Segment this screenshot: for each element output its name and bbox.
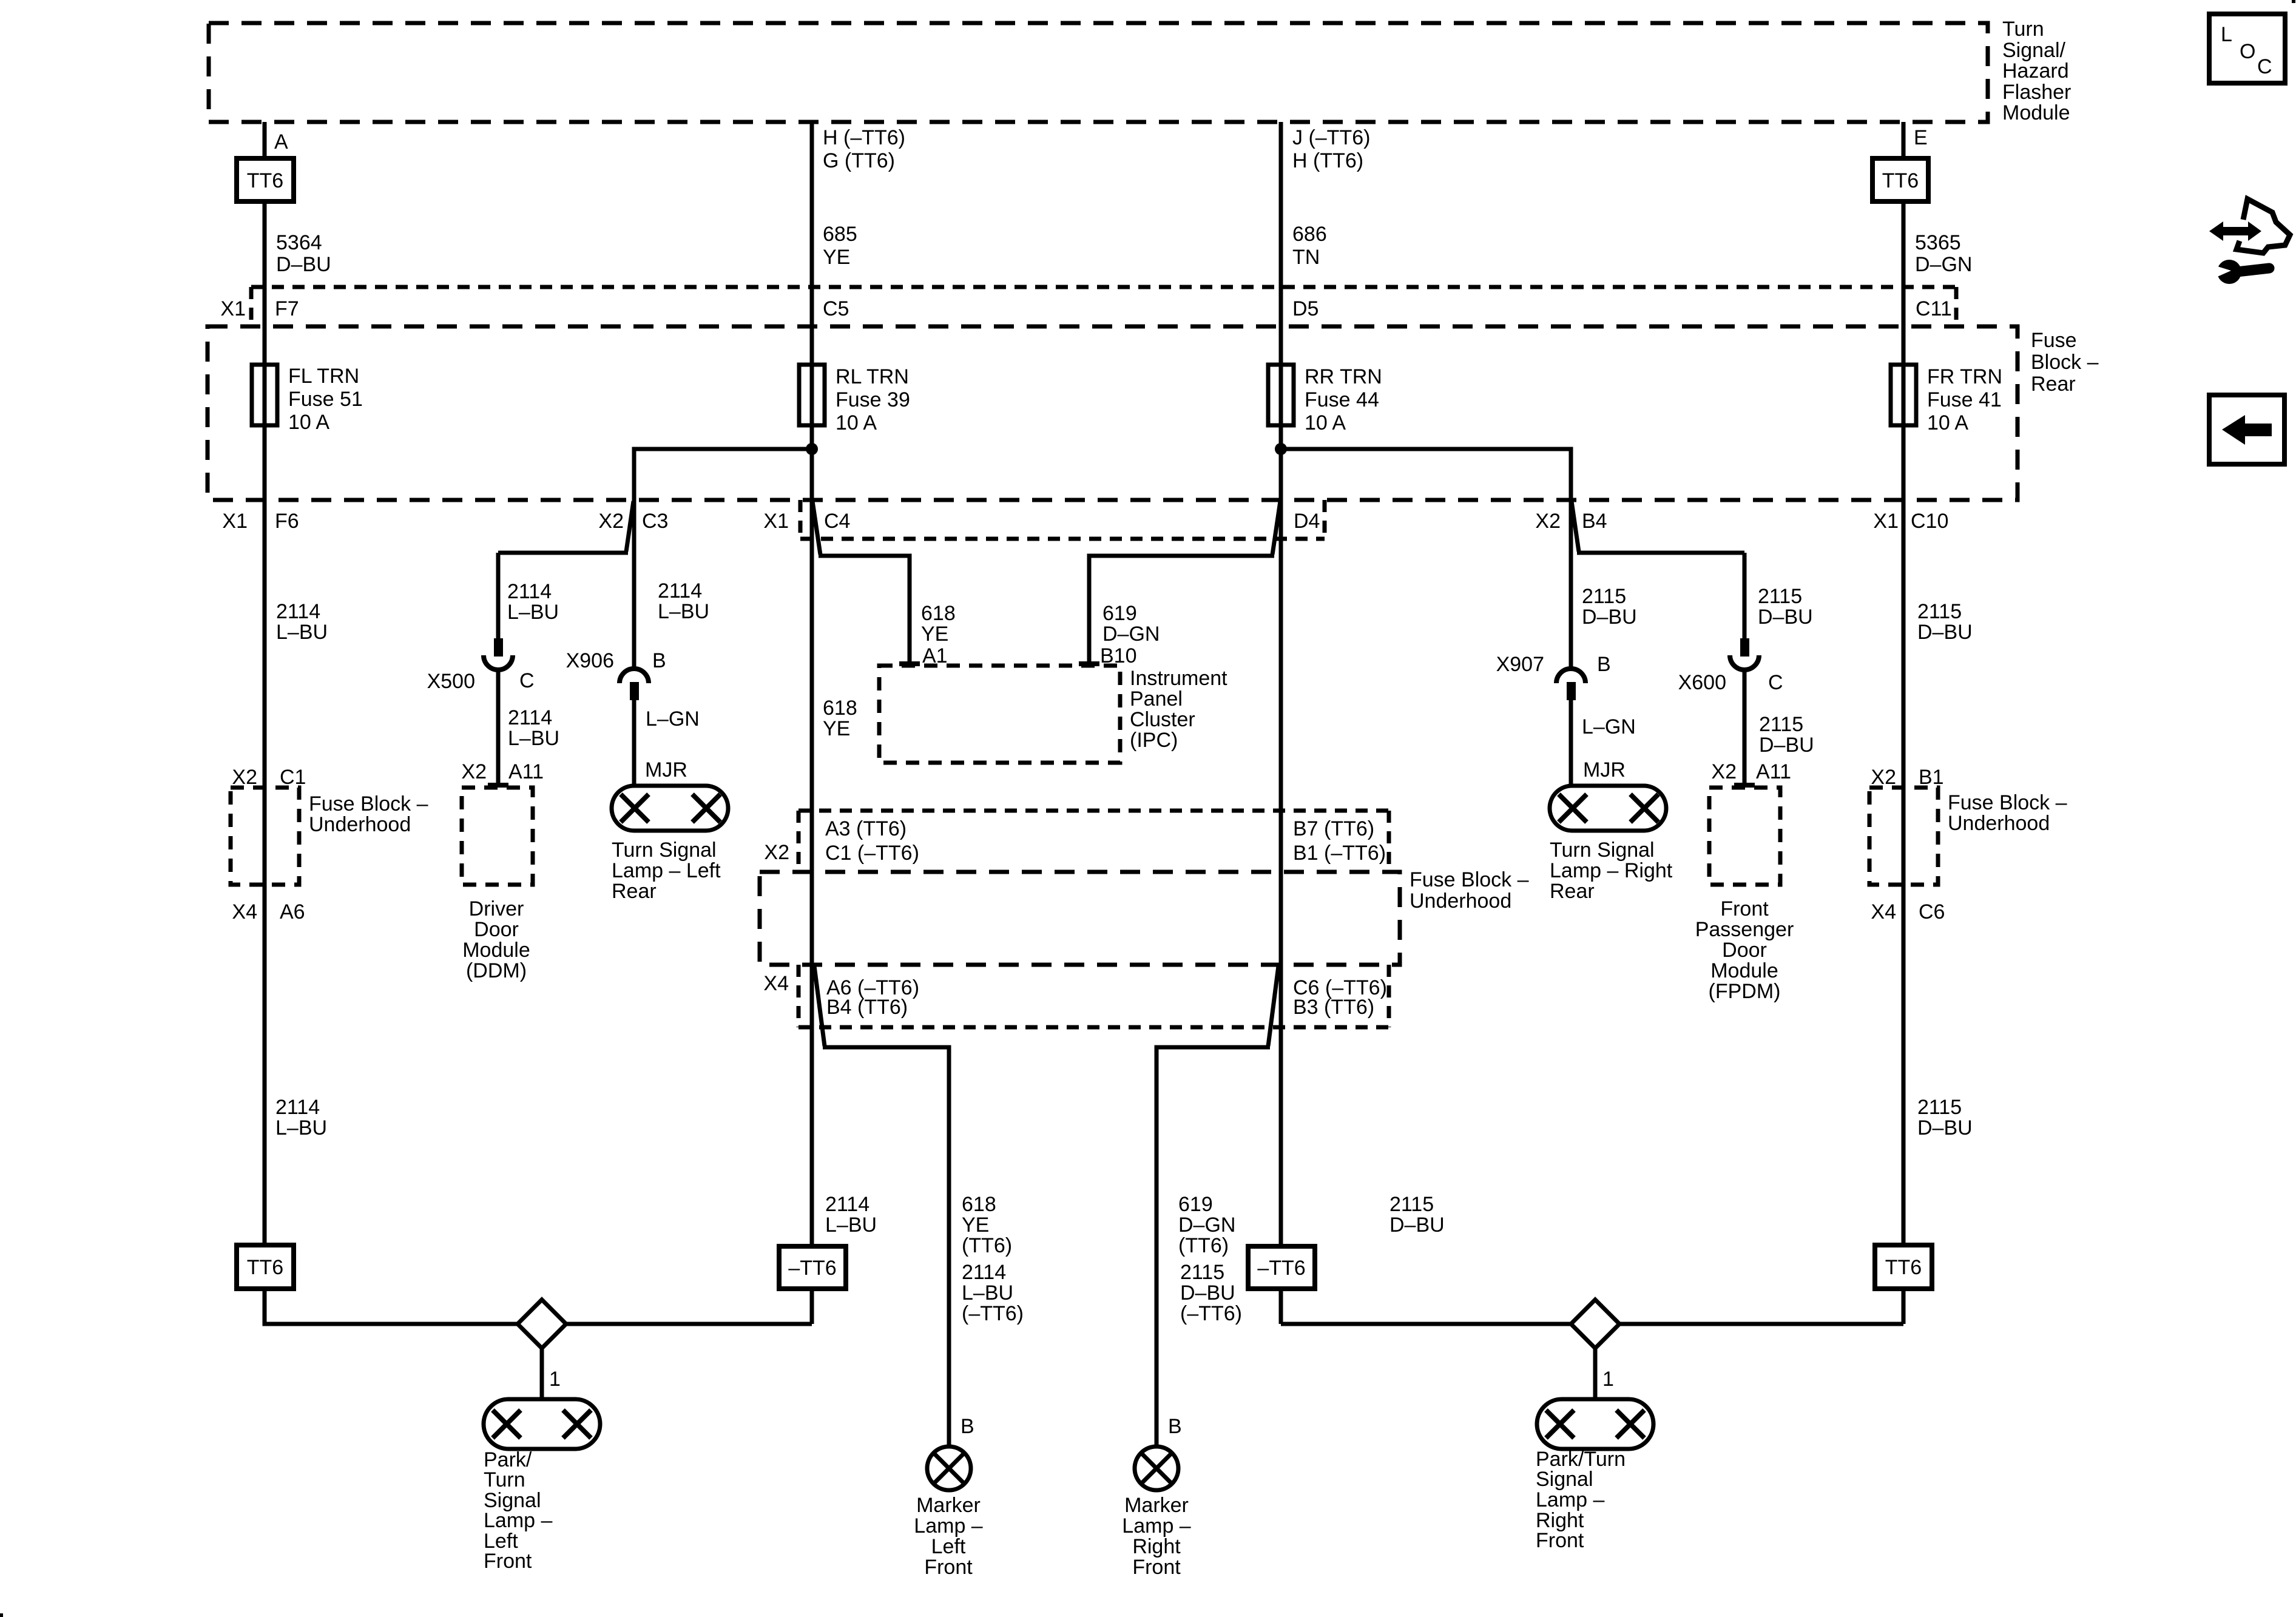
connector X600 (1730, 638, 1759, 670)
LOC icon (2209, 14, 2285, 83)
svg-text:2114: 2114 (276, 600, 320, 623)
svg-text:TT6: TT6 (1885, 1256, 1922, 1279)
Driver Door Module (DDM) dashed box (462, 788, 533, 982)
svg-text:619: 619 (1102, 602, 1137, 625)
svg-text:C: C (519, 669, 535, 692)
wire label 2114 L-BU (wire 2 lower) (825, 1193, 877, 1237)
svg-text:L–BU: L–BU (508, 727, 559, 750)
svg-text:C5: C5 (823, 297, 849, 320)
svg-text:Fuse 51: Fuse 51 (288, 388, 363, 411)
svg-text:B: B (1168, 1415, 1182, 1438)
svg-text:686: 686 (1292, 223, 1327, 246)
svg-text:D–GN: D–GN (1178, 1214, 1235, 1237)
svg-text:TT6: TT6 (247, 169, 283, 192)
TT6 tape label box (right bottom) (1875, 1245, 1932, 1289)
svg-text:Front: Front (484, 1550, 532, 1573)
svg-text:–TT6: –TT6 (788, 1257, 836, 1280)
wire: branch from wire 2 junction to C3 (634, 449, 812, 667)
wire L-GN from X907 to lamp (1569, 700, 1573, 786)
svg-text:2114: 2114 (275, 1096, 320, 1119)
wire from splice to park/turn lamp left (540, 1348, 544, 1399)
wire: branch to X600 (1572, 501, 1579, 552)
svg-text:C1 (–TT6): C1 (–TT6) (825, 842, 919, 865)
svg-text:YE: YE (921, 623, 948, 646)
svg-text:(–TT6): (–TT6) (962, 1302, 1024, 1325)
svg-text:Driver: Driver (469, 897, 524, 920)
svg-text:1: 1 (549, 1368, 561, 1391)
svg-text:F7: F7 (275, 297, 299, 320)
svg-text:Lamp –: Lamp – (484, 1509, 552, 1532)
svg-text:D–BU: D–BU (1389, 1214, 1445, 1237)
svg-text:Rear: Rear (612, 880, 657, 903)
svg-text:Fuse Block –: Fuse Block – (1410, 868, 1529, 891)
connector row X1 dotted (C4 / D4) (800, 500, 1325, 539)
svg-text:Turn: Turn (2002, 18, 2044, 41)
svg-text:B4: B4 (1582, 510, 1607, 533)
wire: 619 D-GN (TT6) branch below X4 to marker lamp right front (1268, 966, 1278, 1046)
svg-text:D4: D4 (1294, 510, 1320, 533)
connector row X4 dotted (central) (799, 965, 1389, 1027)
svg-text:X600: X600 (1678, 671, 1726, 694)
svg-text:618: 618 (823, 697, 857, 720)
svg-text:10 A: 10 A (288, 411, 329, 434)
svg-text:X4: X4 (1871, 900, 1896, 923)
svg-text:2115: 2115 (1180, 1261, 1224, 1284)
svg-text:2115: 2115 (1917, 600, 1962, 623)
svg-text:X1: X1 (1873, 510, 1899, 533)
Park/Turn Signal Lamp - Left Front (484, 1399, 600, 1573)
svg-text:C6: C6 (1919, 900, 1945, 923)
svg-text:(IPC): (IPC) (1130, 729, 1178, 752)
svg-text:L–BU: L–BU (276, 621, 328, 644)
svg-text:5364: 5364 (276, 231, 322, 254)
-TT6 tape label box (right) (1248, 1246, 1315, 1289)
label X1 / C4 (763, 510, 850, 533)
connector X906 (620, 669, 649, 700)
svg-text:Underhood: Underhood (1410, 890, 1511, 913)
svg-text:Door: Door (1722, 939, 1767, 962)
Fuse Block - Underhood (right small) dashed box (1869, 788, 2067, 885)
svg-text:YE: YE (823, 246, 850, 269)
wire label 2115 D-BU (right column upper) (1917, 600, 1973, 644)
svg-text:A6: A6 (280, 900, 305, 923)
svg-text:Module: Module (2002, 101, 2070, 124)
svg-text:X2: X2 (232, 766, 257, 789)
svg-text:Panel: Panel (1130, 687, 1183, 711)
svg-text:Signal: Signal (1536, 1468, 1593, 1491)
wire: 618 YE (TT6) branch below X4 to marker lamp left front (814, 966, 825, 1046)
label X1 / F6 (222, 510, 299, 533)
svg-text:L–BU: L–BU (962, 1281, 1013, 1305)
svg-text:(–TT6): (–TT6) (1180, 1302, 1242, 1325)
svg-text:Lamp –: Lamp – (914, 1514, 982, 1538)
wire label 685 YE (823, 223, 857, 269)
svg-text:2115: 2115 (1582, 585, 1626, 608)
wire 2: flasher pins H/G down (810, 122, 814, 1246)
Fuse Block - Rear dashed box (208, 326, 2099, 500)
svg-text:X1: X1 (220, 297, 246, 320)
label X2 / A11 (DDM) (461, 760, 544, 783)
svg-text:B1 (–TT6): B1 (–TT6) (1293, 842, 1386, 865)
svg-text:Underhood: Underhood (309, 813, 411, 836)
svg-text:(TT6): (TT6) (1178, 1234, 1229, 1257)
svg-text:2115: 2115 (1759, 713, 1803, 736)
svg-text:Rear: Rear (1550, 880, 1595, 903)
svg-text:–TT6: –TT6 (1257, 1257, 1305, 1280)
pin labels H (-TT6) / G (TT6) (823, 126, 905, 172)
fuse FR TRN Fuse 41 10A (1891, 365, 2002, 434)
central Fuse Block - Underhood dashed box (760, 868, 1529, 965)
svg-text:Lamp – Right: Lamp – Right (1550, 859, 1673, 882)
svg-text:L–GN: L–GN (646, 707, 700, 731)
svg-text:X500: X500 (427, 670, 475, 693)
pin labels B7 (TT6) / B1 (-TT6) (1293, 817, 1386, 865)
svg-text:(FPDM): (FPDM) (1709, 980, 1781, 1003)
svg-text:B3 (TT6): B3 (TT6) (1293, 996, 1374, 1019)
svg-text:Fuse 39: Fuse 39 (836, 388, 910, 411)
svg-text:Front: Front (1720, 897, 1769, 920)
svg-text:2115: 2115 (1758, 585, 1802, 608)
back arrow icon (2209, 395, 2284, 464)
svg-text:Fuse Block –: Fuse Block – (309, 792, 428, 815)
splice diamond (left) (518, 1300, 566, 1348)
wire label 2115 D-BU (X907 branch upper) (1582, 585, 1637, 629)
wire 1: flasher pin A to TT6 (263, 122, 267, 158)
svg-text:Hazard: Hazard (2002, 59, 2069, 83)
label X2 / B1 (1871, 766, 1943, 789)
wire label 2115 D-BU (wire 3 lower) (1389, 1193, 1445, 1237)
wire label 2114 L-BU (below X500) (508, 706, 559, 750)
svg-text:X1: X1 (222, 510, 248, 533)
svg-text:Marker: Marker (1124, 1494, 1189, 1517)
svg-text:D–GN: D–GN (1102, 623, 1160, 646)
svg-text:A3 (TT6): A3 (TT6) (825, 817, 907, 840)
svg-text:Cluster: Cluster (1130, 708, 1195, 731)
wire label 2114 L-BU (-TT6) (962, 1261, 1024, 1325)
wire label 5365 D-GN (1915, 231, 1972, 276)
wire below -TT6 (left) to splice line (810, 1289, 814, 1324)
svg-text:C3: C3 (642, 510, 668, 533)
connector X907 (1556, 669, 1585, 700)
svg-text:(DDM): (DDM) (466, 959, 527, 982)
svg-text:D–BU: D–BU (1759, 734, 1814, 757)
splice diamond (right) (1571, 1300, 1619, 1348)
label X500 / C (427, 669, 535, 693)
svg-text:Instrument: Instrument (1130, 667, 1227, 690)
label X4 / C6 (1871, 900, 1945, 923)
TT6 tape label box (right top) (1872, 158, 1928, 201)
wire L-GN from X906 to lamp (632, 700, 636, 786)
wire 3: flasher pins J/H down (1279, 122, 1283, 1246)
svg-text:C1: C1 (280, 766, 306, 789)
svg-text:H (–TT6): H (–TT6) (823, 126, 905, 149)
svg-text:2114: 2114 (825, 1193, 869, 1216)
svg-text:F6: F6 (275, 510, 299, 533)
pin labels A6 (-TT6) / B4 (TT6) (826, 976, 919, 1019)
svg-text:X2: X2 (598, 510, 624, 533)
wire label 5364 D-BU (276, 231, 331, 276)
wire label 618 YE (IPC branch) (921, 602, 956, 646)
TT6 tape label box (left bottom) (237, 1245, 294, 1289)
svg-text:Marker: Marker (916, 1494, 981, 1517)
wire: 619 D-GN branch to IPC pin B10 (1272, 501, 1280, 555)
svg-text:B1: B1 (1919, 766, 1944, 789)
svg-text:L–BU: L–BU (825, 1214, 877, 1237)
svg-text:Lamp –: Lamp – (1536, 1488, 1604, 1511)
svg-text:Lamp –: Lamp – (1122, 1514, 1190, 1538)
wire: branch from wire 3 junction to B4 / X907 (1281, 449, 1571, 667)
label X1 / C10 (1873, 510, 1948, 533)
svg-text:X907: X907 (1496, 653, 1544, 676)
svg-text:Fuse 44: Fuse 44 (1305, 388, 1379, 411)
svg-text:X1: X1 (763, 510, 789, 533)
svg-text:Right: Right (1132, 1535, 1181, 1558)
wire label 619 D-GN (TT6) (1178, 1193, 1235, 1257)
wire label 2114 L-BU (left lower) (275, 1096, 327, 1139)
svg-text:X4: X4 (763, 972, 789, 995)
pin labels J (-TT6) / H (TT6) (1292, 126, 1370, 172)
label X906 / B (566, 649, 666, 672)
svg-text:Left: Left (931, 1535, 966, 1558)
Fuse Block - Underhood (left small) dashed box (231, 788, 428, 885)
svg-text:A11: A11 (508, 760, 544, 783)
fuse RR TRN Fuse 44 10A (1268, 365, 1382, 434)
svg-text:2114: 2114 (962, 1261, 1006, 1284)
connector row X2 dotted (central) (799, 811, 1389, 872)
svg-text:L–BU: L–BU (275, 1116, 327, 1139)
Front Passenger Door Module (FPDM) dashed box (1695, 788, 1794, 1003)
pin labels C6 (-TT6) / B3 (TT6) (1293, 976, 1387, 1019)
svg-text:X4: X4 (232, 900, 257, 923)
svg-text:2114: 2114 (658, 579, 702, 603)
wire below TT6 (right bottom) (1902, 1289, 1906, 1324)
junction dot on wire 2 (806, 443, 818, 455)
svg-text:Signal/: Signal/ (2002, 39, 2066, 62)
svg-text:E: E (1914, 126, 1928, 149)
Turn Signal Lamp - Right Rear (1550, 786, 1673, 903)
svg-text:Flasher: Flasher (2002, 81, 2071, 104)
label X2 / A11 (FPDM) (1711, 760, 1791, 783)
wire label 2114 L-BU (X906 branch upper) (658, 579, 709, 623)
connector X500 (484, 638, 513, 670)
label X907 / B (1496, 653, 1611, 676)
svg-text:RR TRN: RR TRN (1305, 365, 1382, 388)
svg-text:YE: YE (962, 1214, 989, 1237)
svg-text:C: C (1768, 671, 1783, 694)
svg-text:B: B (1597, 653, 1611, 676)
wire 1: 5364 D-BU down through fuse block to F6 (263, 201, 267, 1245)
svg-text:Front: Front (924, 1556, 973, 1579)
label X600 / C (1678, 671, 1783, 694)
svg-text:L–GN: L–GN (1582, 715, 1636, 738)
svg-text:B4 (TT6): B4 (TT6) (826, 996, 908, 1019)
label X2 / C1 (232, 766, 306, 789)
svg-text:Turn Signal: Turn Signal (1550, 839, 1655, 862)
wire label 2115 D-BU (below X600) (1759, 713, 1814, 757)
svg-text:618: 618 (962, 1193, 996, 1216)
svg-text:X906: X906 (566, 649, 614, 672)
svg-text:D–BU: D–BU (1917, 1116, 1973, 1139)
wire label 618 YE (wire 2 below C4) (823, 697, 857, 740)
wire label 619 D-GN (IPC branch) (1102, 602, 1160, 646)
junction dot on wire 3 (1275, 443, 1287, 455)
Turn Signal/Hazard Flasher Module box (209, 18, 2071, 124)
TT6 tape label box (left top) (237, 158, 294, 201)
svg-text:2114: 2114 (507, 580, 552, 603)
svg-text:A: A (274, 130, 288, 154)
fuse RL TRN Fuse 39 10A (799, 365, 910, 434)
svg-text:D–GN: D–GN (1915, 253, 1972, 276)
svg-text:G (TT6): G (TT6) (823, 149, 895, 172)
svg-text:Underhood: Underhood (1948, 812, 2050, 835)
svg-text:10 A: 10 A (1927, 411, 1968, 434)
Marker Lamp - Left Front (914, 1447, 982, 1579)
svg-text:B: B (961, 1415, 974, 1438)
svg-text:FR TRN: FR TRN (1927, 365, 2002, 388)
svg-text:Fuse: Fuse (2031, 329, 2077, 352)
svg-text:Front: Front (1536, 1529, 1584, 1552)
svg-text:5365: 5365 (1915, 231, 1961, 254)
Park/Turn Signal Lamp - Right Front (1536, 1399, 1653, 1552)
svg-text:D–BU: D–BU (1758, 606, 1813, 629)
svg-text:D5: D5 (1292, 297, 1319, 320)
svg-text:Turn: Turn (484, 1468, 525, 1491)
svg-text:A11: A11 (1756, 760, 1791, 783)
svg-text:2115: 2115 (1389, 1193, 1434, 1216)
wire 2115 D-BU from X600 to FPDM (1743, 670, 1747, 785)
svg-text:Fuse 41: Fuse 41 (1927, 388, 2002, 411)
svg-text:Lamp – Left: Lamp – Left (612, 859, 721, 882)
service info icon (arrow/hand/wrench) (2209, 199, 2290, 284)
-TT6 tape label box (left) (779, 1246, 846, 1289)
svg-text:X2: X2 (1711, 760, 1737, 783)
svg-text:Front: Front (1132, 1556, 1181, 1579)
svg-text:1: 1 (1602, 1368, 1614, 1391)
wire: splice line right (1281, 1322, 1903, 1326)
svg-text:D–BU: D–BU (276, 253, 331, 276)
svg-text:X2: X2 (764, 841, 789, 864)
svg-text:618: 618 (921, 602, 956, 625)
svg-text:L–BU: L–BU (507, 601, 559, 624)
wire: 618 YE branch to IPC pin A1 (812, 501, 820, 555)
svg-text:B: B (652, 649, 666, 672)
wire 2114 L-BU from X500 to DDM (496, 670, 501, 785)
Instrument Panel Cluster (IPC) dashed box (879, 666, 1227, 763)
svg-text:(TT6): (TT6) (962, 1234, 1012, 1257)
svg-text:RL TRN: RL TRN (836, 365, 909, 388)
svg-text:X2: X2 (1871, 766, 1896, 789)
svg-text:2114: 2114 (508, 706, 552, 729)
svg-text:O: O (2240, 40, 2255, 63)
svg-text:D–BU: D–BU (1180, 1281, 1235, 1305)
svg-text:L: L (2221, 23, 2232, 46)
svg-text:TT6: TT6 (1882, 169, 1919, 192)
Turn Signal Lamp - Left Rear (612, 786, 728, 903)
wire label 2115 D-BU (X600 branch upper) (1758, 585, 1813, 629)
svg-text:C4: C4 (824, 510, 850, 533)
Marker Lamp - Right Front (1122, 1447, 1190, 1579)
wire label 2114 L-BU (left column) (276, 600, 328, 644)
wire label 618 YE (TT6) (962, 1193, 1012, 1257)
svg-text:J (–TT6): J (–TT6) (1292, 126, 1370, 149)
svg-text:TT6: TT6 (247, 1256, 283, 1279)
pin labels A3 (TT6) / C1 (-TT6) (825, 817, 919, 865)
svg-text:Fuse Block –: Fuse Block – (1948, 791, 2067, 814)
connector row X1 (dotted) at fuse block rear top (251, 287, 1956, 326)
wire: left bottom corner to splice (265, 1289, 812, 1324)
svg-text:Passenger: Passenger (1695, 918, 1794, 941)
svg-text:L–BU: L–BU (658, 600, 709, 623)
svg-text:D–BU: D–BU (1582, 606, 1637, 629)
svg-text:10 A: 10 A (836, 411, 877, 434)
svg-text:10 A: 10 A (1305, 411, 1346, 434)
svg-text:619: 619 (1178, 1193, 1213, 1216)
wire: branch to X500 (626, 501, 633, 552)
wire 4: 5365 D-GN down through fuse block to C10 (1902, 201, 1906, 1245)
svg-text:C10: C10 (1911, 510, 1948, 533)
svg-text:H (TT6): H (TT6) (1292, 149, 1363, 172)
svg-text:YE: YE (823, 717, 850, 740)
svg-text:FL TRN: FL TRN (288, 365, 359, 388)
svg-text:Turn Signal: Turn Signal (612, 839, 717, 862)
wire below -TT6 (right) to splice line (1279, 1289, 1283, 1324)
svg-text:B7 (TT6): B7 (TT6) (1293, 817, 1374, 840)
svg-text:Module: Module (1710, 959, 1778, 982)
wire label 2115 D-BU (-TT6) (1180, 1261, 1242, 1325)
svg-text:2115: 2115 (1917, 1096, 1962, 1119)
svg-text:Door: Door (474, 918, 519, 941)
svg-text:D–BU: D–BU (1917, 621, 1973, 644)
label X4 / A6 (232, 900, 305, 923)
wire from splice to park/turn lamp right (1593, 1348, 1598, 1399)
svg-text:Module: Module (462, 939, 530, 962)
svg-text:MJR: MJR (1583, 758, 1626, 781)
svg-text:Rear: Rear (2031, 373, 2076, 396)
svg-text:X2: X2 (1535, 510, 1561, 533)
svg-text:X2: X2 (461, 760, 487, 783)
svg-text:MJR: MJR (645, 758, 687, 781)
wire label 2115 D-BU (right column lower) (1917, 1096, 1973, 1139)
svg-text:C11: C11 (1916, 297, 1952, 320)
svg-text:685: 685 (823, 223, 857, 246)
svg-text:Block –: Block – (2031, 351, 2099, 374)
svg-text:TN: TN (1292, 246, 1320, 269)
svg-text:C: C (2257, 55, 2272, 78)
wire label 686 TN (1292, 223, 1327, 269)
wire label 2114 L-BU (X500 branch upper) (507, 580, 559, 624)
label X2 / C3 (598, 510, 668, 533)
label X2 / B4 (1535, 510, 1607, 533)
wire 4: flasher pin E to TT6 (1902, 122, 1906, 158)
fuse FL TRN Fuse 51 10A (252, 365, 363, 434)
label X1 / F7 (220, 297, 299, 320)
